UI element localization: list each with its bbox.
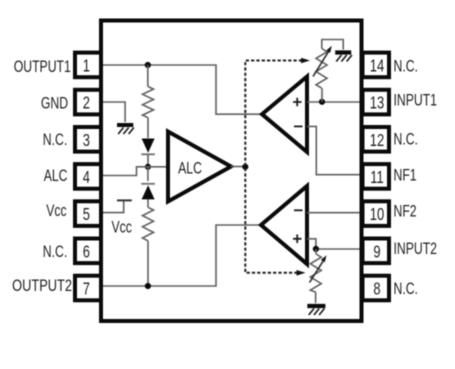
diode D1 (pointing down) bbox=[141, 139, 155, 155]
pin 8 box bbox=[363, 276, 390, 301]
wire dot up to potentiometer VR1 bbox=[321, 88, 323, 102]
IC body outline bbox=[101, 21, 362, 322]
wire U2 - input to pin10 NF2 bbox=[307, 212, 360, 214]
resistor R2 bbox=[143, 207, 154, 241]
ground symbol VR1 (top right) bbox=[335, 53, 352, 62]
wire R1 to diode D1 bbox=[147, 118, 149, 138]
wire pin1-dot down to resistor R1 bbox=[147, 65, 149, 87]
wire VR2 to ground bbox=[315, 292, 317, 303]
svg-text:Vcc: Vcc bbox=[112, 219, 133, 237]
node junction dot on pin7 wire bbox=[145, 283, 151, 289]
svg-text:NF1: NF1 bbox=[394, 167, 417, 185]
wire pin7 to op-amp U2 output bbox=[103, 225, 260, 286]
svg-text:11: 11 bbox=[370, 168, 383, 188]
node junction dot on pin1 wire bbox=[145, 62, 151, 68]
svg-text:NF2: NF2 bbox=[394, 203, 417, 221]
diode D2 (pointing up) bbox=[141, 184, 155, 200]
wire VR1 top loop to ground bbox=[322, 40, 343, 50]
Vcc symbol at pin5 bbox=[103, 200, 132, 212]
svg-text:INPUT2: INPUT2 bbox=[394, 240, 437, 258]
svg-text:N.C.: N.C. bbox=[394, 280, 418, 298]
pin 9 box bbox=[363, 239, 390, 264]
wire U1 + input to pin13 INPUT1 bbox=[307, 101, 360, 103]
arrowhead top dashed bbox=[301, 58, 310, 64]
pin 3 box bbox=[75, 127, 101, 152]
pin 13 box bbox=[363, 90, 390, 115]
svg-text:ALC: ALC bbox=[44, 167, 68, 185]
svg-text:10: 10 bbox=[370, 205, 385, 225]
wire D1 to ALC input node bbox=[147, 154, 149, 167]
VR2 wiper arrow bbox=[310, 255, 327, 282]
pin 10 box bbox=[363, 201, 390, 226]
wire U2 + input jog to pin9 INPUT2 bbox=[307, 239, 360, 249]
wire ALC output to control node bbox=[231, 166, 245, 168]
svg-text:2: 2 bbox=[83, 94, 90, 114]
svg-text:3: 3 bbox=[83, 131, 90, 151]
amplifier ALC U3 bbox=[168, 132, 231, 202]
pin 1 box bbox=[75, 53, 101, 78]
pin 12 box bbox=[363, 127, 390, 152]
svg-text:N.C.: N.C. bbox=[43, 243, 67, 261]
node ALC input junction dot bbox=[145, 164, 151, 170]
svg-text:14: 14 bbox=[370, 56, 385, 76]
svg-text:OUTPUT2: OUTPUT2 bbox=[12, 277, 72, 296]
wire pin1 to op-amp U1 output bbox=[103, 65, 260, 114]
op-amp U2 bbox=[261, 186, 307, 264]
svg-text:N.C.: N.C. bbox=[394, 58, 418, 76]
pin 4 box bbox=[75, 164, 101, 189]
pin 6 box bbox=[75, 239, 101, 264]
svg-text:7: 7 bbox=[83, 280, 90, 300]
svg-text:5: 5 bbox=[83, 205, 90, 225]
svg-text:ALC: ALC bbox=[178, 160, 202, 178]
arrowhead bottom dashed bbox=[297, 270, 306, 276]
wire U1 - input to pin11 NF1 bbox=[307, 126, 360, 174]
ground symbol near pin2 bbox=[103, 102, 134, 134]
ground symbol VR2 (bottom) bbox=[307, 306, 325, 315]
svg-text:1: 1 bbox=[83, 56, 90, 76]
resistor R1 bbox=[143, 87, 154, 118]
svg-text:13: 13 bbox=[370, 94, 385, 114]
wire D2 to resistor R2 bbox=[147, 199, 149, 207]
op-amp U1 bbox=[262, 77, 307, 153]
wire dot down to potentiometer VR2 bbox=[315, 249, 317, 254]
pin 5 box bbox=[75, 201, 101, 226]
node control line junction dot bbox=[242, 164, 248, 170]
potentiometer VR2 resistor body bbox=[310, 254, 321, 292]
svg-text:6: 6 bbox=[83, 242, 90, 262]
svg-text:N.C.: N.C. bbox=[394, 131, 418, 149]
dashed control line to both potentiometers bbox=[245, 61, 302, 273]
pin 2 box bbox=[75, 90, 101, 115]
svg-text:GND: GND bbox=[41, 95, 68, 113]
pin 7 box bbox=[75, 276, 101, 301]
svg-text:8: 8 bbox=[373, 280, 380, 300]
wire R2 down to pin7 wire bbox=[147, 241, 149, 286]
node junction dot INPUT1 bbox=[319, 99, 325, 105]
svg-text:12: 12 bbox=[370, 131, 384, 151]
wire pin4 to ALC amp input bbox=[103, 167, 166, 176]
node junction dot INPUT2 bbox=[313, 246, 319, 252]
svg-text:INPUT1: INPUT1 bbox=[394, 92, 437, 110]
svg-text:OUTPUT1: OUTPUT1 bbox=[14, 58, 71, 76]
potentiometer VR1 resistor body bbox=[316, 49, 327, 89]
pin 11 box bbox=[363, 164, 390, 189]
svg-text:9: 9 bbox=[373, 242, 380, 262]
svg-text:4: 4 bbox=[83, 168, 90, 188]
svg-text:N.C.: N.C. bbox=[43, 131, 67, 149]
svg-text:Vcc: Vcc bbox=[46, 202, 67, 220]
wire ALC node down to diode D2 bbox=[147, 167, 149, 181]
VR1 wiper arrow bbox=[313, 46, 332, 77]
pin 14 box bbox=[363, 53, 390, 78]
